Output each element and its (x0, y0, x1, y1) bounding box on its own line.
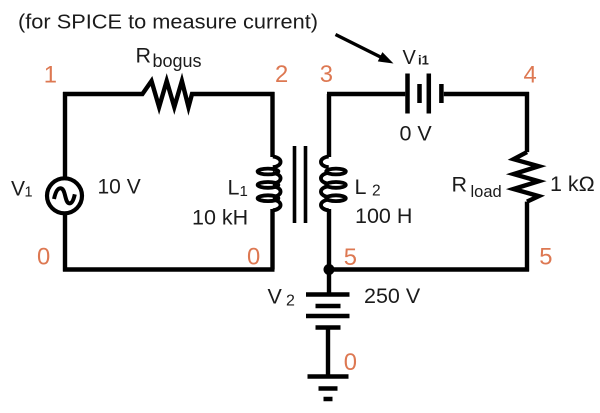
svg-text:3: 3 (320, 61, 333, 88)
svg-text:R: R (452, 173, 468, 197)
svg-text:0 V: 0 V (400, 122, 433, 146)
svg-text:L: L (228, 176, 240, 200)
svg-text:load: load (471, 183, 502, 201)
svg-text:bogus: bogus (153, 51, 202, 71)
svg-text:4: 4 (524, 62, 537, 89)
svg-text:0: 0 (344, 349, 357, 376)
svg-text:10 kH: 10 kH (192, 206, 248, 230)
svg-text:(for SPICE to measure current): (for SPICE to measure current) (18, 11, 318, 34)
svg-text:0: 0 (37, 243, 50, 270)
svg-text:V: V (11, 178, 25, 201)
svg-text:1: 1 (25, 185, 33, 201)
svg-text:R: R (136, 44, 152, 68)
svg-text:i1: i1 (418, 53, 429, 68)
svg-text:L: L (355, 175, 367, 199)
svg-text:V: V (268, 285, 283, 309)
svg-text:2: 2 (275, 61, 288, 88)
svg-text:250 V: 250 V (364, 284, 421, 308)
svg-text:V: V (403, 47, 417, 69)
svg-text:2: 2 (286, 293, 295, 310)
svg-text:1: 1 (240, 183, 248, 200)
svg-text:0: 0 (247, 243, 260, 270)
svg-text:1 kΩ: 1 kΩ (550, 172, 595, 196)
svg-text:1: 1 (44, 62, 57, 89)
svg-text:5: 5 (539, 243, 552, 270)
svg-text:10 V: 10 V (98, 176, 141, 199)
svg-text:2: 2 (372, 183, 381, 200)
svg-text:5: 5 (344, 244, 357, 271)
svg-text:100 H: 100 H (355, 204, 412, 228)
